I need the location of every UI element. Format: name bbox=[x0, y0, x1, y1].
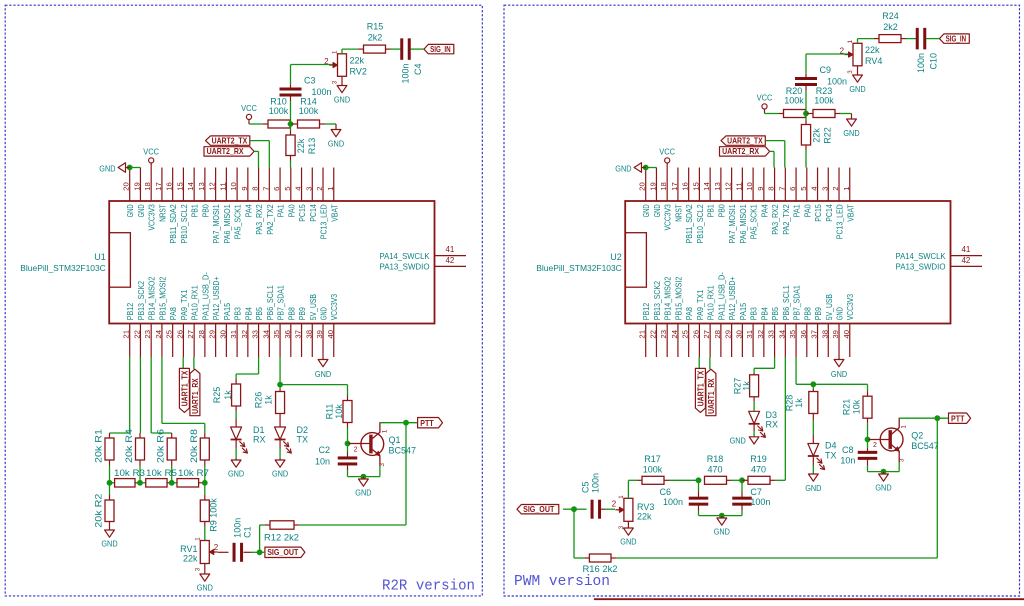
svg-text:22k: 22k bbox=[865, 45, 880, 55]
resistor R3 10k bbox=[114, 468, 145, 487]
svg-text:R21: R21 bbox=[842, 399, 852, 416]
wire R9 to RV1 bbox=[204, 527, 206, 541]
svg-text:PB13_SCK2: PB13_SCK2 bbox=[137, 281, 146, 321]
svg-text:100n: 100n bbox=[750, 497, 770, 507]
svg-text:UART2_TX: UART2_TX bbox=[212, 135, 248, 145]
pin 41 (PA14_SWCLK) of U1 bbox=[380, 245, 467, 261]
hierarchical label PTT bbox=[418, 418, 443, 428]
svg-text:PA7_MOSI1: PA7_MOSI1 bbox=[212, 204, 221, 244]
svg-text:1: 1 bbox=[194, 537, 201, 541]
pin 8 (PA3_RX2) of U1 bbox=[251, 168, 265, 235]
pin 33 (PB5) of U2 bbox=[767, 307, 781, 357]
svg-text:C3: C3 bbox=[304, 76, 316, 86]
svg-text:100k: 100k bbox=[643, 465, 663, 475]
svg-text:22k: 22k bbox=[350, 55, 365, 65]
pin 30 (PA15) of U2 bbox=[734, 302, 748, 357]
svg-text:25: 25 bbox=[165, 330, 174, 339]
pin 9 (PA4) of U1 bbox=[240, 168, 254, 218]
svg-text:22: 22 bbox=[132, 330, 141, 339]
svg-text:D4: D4 bbox=[825, 441, 837, 451]
svg-text:22k: 22k bbox=[812, 128, 822, 143]
svg-text:PB0: PB0 bbox=[717, 204, 726, 218]
svg-text:37: 37 bbox=[810, 330, 819, 339]
wire VCC to R10 bbox=[249, 123, 263, 125]
svg-text:10: 10 bbox=[229, 182, 238, 191]
pin 21 (PB12) of U2 bbox=[638, 302, 652, 357]
wire C1 to SIG_OUT node bbox=[244, 551, 260, 553]
power VCC feeding R10 bbox=[241, 103, 257, 124]
junction Q2 base node bbox=[865, 437, 871, 443]
svg-text:PC14: PC14 bbox=[309, 204, 318, 222]
svg-text:6: 6 bbox=[788, 187, 797, 191]
wire pin33 to R27 bbox=[754, 357, 774, 373]
svg-text:23: 23 bbox=[659, 330, 668, 339]
hierarchical label UART2_RX bbox=[204, 146, 254, 156]
wire R17 to node E bbox=[669, 479, 699, 481]
svg-text:PTT: PTT bbox=[420, 418, 433, 428]
svg-text:PA0: PA0 bbox=[803, 204, 812, 218]
pin 38 (5V_USB) of U1 bbox=[304, 294, 318, 357]
svg-text:27: 27 bbox=[702, 330, 711, 339]
svg-text:21: 21 bbox=[122, 330, 131, 339]
svg-text:26: 26 bbox=[691, 330, 700, 339]
wire R16 to SIG_OUT node bbox=[574, 509, 584, 558]
svg-text:29: 29 bbox=[724, 330, 733, 339]
pin 20 (GND) of U1 bbox=[122, 168, 136, 218]
svg-text:R11: R11 bbox=[324, 404, 334, 420]
wire R22 to pin 5 bbox=[805, 150, 807, 168]
pin 23 (PB14_MISO2) of U1 bbox=[143, 276, 157, 357]
ground right of R14 bbox=[328, 124, 344, 149]
capacitor C3 100n bbox=[280, 65, 332, 125]
svg-text:RX: RX bbox=[253, 435, 266, 445]
pin 11 (PA6_MISO1) of U2 bbox=[734, 168, 748, 244]
resistor R14 100k bbox=[291, 97, 325, 129]
wire pin20-pin19 GND tie bbox=[646, 167, 657, 169]
svg-text:UART1_TX: UART1_TX bbox=[179, 370, 189, 406]
svg-text:PA6_MISO1: PA6_MISO1 bbox=[223, 204, 232, 244]
svg-text:PB3: PB3 bbox=[750, 307, 759, 321]
svg-text:2k2: 2k2 bbox=[883, 22, 898, 32]
svg-text:30: 30 bbox=[218, 330, 227, 339]
svg-text:14: 14 bbox=[186, 182, 195, 191]
svg-text:38: 38 bbox=[304, 330, 313, 339]
svg-text:33: 33 bbox=[251, 330, 260, 339]
svg-text:PB7_SDA1: PB7_SDA1 bbox=[277, 285, 286, 320]
resistor R1 20k bbox=[94, 429, 115, 483]
svg-text:C1: C1 bbox=[243, 526, 253, 538]
pin 2 (PC13_LED) of U1 bbox=[315, 168, 329, 240]
wire TX node to R11 bbox=[280, 384, 347, 386]
hierarchical label UART1_RX bbox=[706, 369, 716, 416]
hierarchical label UART1_TX bbox=[695, 368, 705, 412]
pin 21 (PB12) of U1 bbox=[122, 302, 136, 357]
svg-text:TX: TX bbox=[297, 435, 309, 445]
junction C6/C7 ground bbox=[719, 513, 725, 519]
ground under C6/C7 bbox=[714, 516, 730, 537]
svg-text:19: 19 bbox=[132, 182, 141, 191]
svg-text:GND: GND bbox=[714, 527, 730, 537]
svg-text:PA10_RX1: PA10_RX1 bbox=[191, 285, 200, 320]
wire pin 26 to UART1_TX bbox=[182, 357, 184, 368]
svg-text:U2: U2 bbox=[610, 252, 622, 262]
svg-text:GND: GND bbox=[620, 537, 636, 547]
wire pin35 to TX node bbox=[279, 357, 281, 385]
svg-text:GND: GND bbox=[272, 469, 288, 479]
hierarchical label PTT (PWM) bbox=[949, 413, 971, 423]
wire Q1 emitter down bbox=[379, 456, 381, 477]
pin 7 (PA2_TX2) of U1 bbox=[261, 168, 275, 235]
svg-text:PA11_USB_D-: PA11_USB_D- bbox=[717, 272, 726, 320]
svg-text:25: 25 bbox=[681, 330, 690, 339]
transistor Q1 BC547 bbox=[354, 423, 416, 467]
svg-text:39: 39 bbox=[831, 330, 840, 339]
svg-text:1k: 1k bbox=[223, 390, 233, 400]
svg-text:16: 16 bbox=[681, 182, 690, 191]
pin 37 (PB9) of U1 bbox=[294, 307, 308, 357]
svg-text:PB12: PB12 bbox=[126, 302, 135, 320]
resistor R16 2k2 bbox=[583, 554, 618, 574]
svg-text:C7: C7 bbox=[750, 487, 762, 497]
svg-text:100k: 100k bbox=[814, 96, 834, 106]
svg-text:SIG_IN: SIG_IN bbox=[946, 33, 967, 43]
pin 17 (NRST) of U1 bbox=[154, 168, 168, 222]
svg-text:GND: GND bbox=[355, 488, 371, 498]
resistor R20 100k bbox=[779, 86, 807, 118]
svg-text:23: 23 bbox=[143, 330, 152, 339]
svg-text:3: 3 bbox=[304, 187, 313, 191]
wire UART2_RX to pin 8 bbox=[254, 151, 258, 167]
junction node D bbox=[202, 480, 208, 486]
svg-text:GND: GND bbox=[843, 128, 859, 138]
resistor R6 20k bbox=[156, 429, 177, 483]
svg-text:5V_USB: 5V_USB bbox=[309, 294, 318, 320]
svg-text:GND: GND bbox=[328, 139, 344, 149]
svg-text:U1: U1 bbox=[94, 252, 106, 262]
svg-text:PA4: PA4 bbox=[244, 204, 253, 218]
pin 34 (PB6_SCL1) of U1 bbox=[261, 285, 275, 357]
wire SIG_OUT node to C5 bbox=[574, 508, 587, 510]
svg-text:19: 19 bbox=[648, 182, 657, 191]
svg-text:20k R4: 20k R4 bbox=[124, 429, 134, 463]
resistor R4 20k bbox=[124, 429, 145, 483]
svg-text:R12 2k2: R12 2k2 bbox=[264, 532, 299, 542]
svg-text:24: 24 bbox=[670, 330, 679, 339]
capacitor C6 100n bbox=[659, 480, 708, 515]
svg-text:100n: 100n bbox=[827, 77, 847, 87]
pin 35 (PB7_SDA1) of U1 bbox=[272, 285, 286, 357]
text note R2R version bbox=[382, 579, 475, 595]
pin 39 (GND) of U1 bbox=[315, 307, 329, 357]
pin 1 (VBAT) of U1 bbox=[326, 168, 340, 222]
svg-text:10k R5: 10k R5 bbox=[146, 468, 177, 478]
svg-text:C5: C5 bbox=[580, 481, 590, 493]
wire ladder node A segment bbox=[110, 482, 115, 484]
svg-text:R25: R25 bbox=[212, 387, 222, 404]
svg-text:VCC3V3: VCC3V3 bbox=[664, 204, 673, 231]
ground GND flag at pin 20 bbox=[99, 163, 129, 174]
resistor R22 22k bbox=[801, 114, 832, 151]
pin 28 (PA11_USB_D-) of U1 bbox=[197, 272, 211, 357]
svg-text:PB10_SCL2: PB10_SCL2 bbox=[180, 204, 189, 244]
svg-text:C6: C6 bbox=[659, 487, 671, 497]
IC U2 BluePill_STM32F103C body bbox=[536, 201, 950, 324]
svg-text:30: 30 bbox=[734, 330, 743, 339]
junction TX node bbox=[277, 382, 283, 388]
pin 27 (PA10_RX1) of U1 bbox=[186, 285, 200, 357]
pin 20 (GND) of U2 bbox=[638, 168, 652, 218]
svg-text:PB3: PB3 bbox=[234, 307, 243, 321]
svg-text:GND: GND bbox=[99, 163, 115, 173]
svg-text:9: 9 bbox=[240, 187, 249, 191]
svg-text:GND: GND bbox=[836, 307, 845, 320]
svg-text:GND: GND bbox=[831, 369, 847, 379]
svg-text:PB5: PB5 bbox=[255, 307, 264, 321]
svg-text:RV3: RV3 bbox=[637, 502, 654, 512]
wire R12 to PTT net bbox=[299, 423, 406, 525]
wire R28 to D4 bbox=[812, 420, 814, 435]
svg-text:R28: R28 bbox=[784, 395, 794, 412]
wire R13 to pin 5 bbox=[290, 161, 292, 168]
svg-text:Q1: Q1 bbox=[389, 435, 401, 445]
capacitor C1 100n bbox=[233, 518, 253, 562]
svg-text:2: 2 bbox=[214, 543, 219, 552]
pin 3 (PC14) of U2 bbox=[820, 168, 834, 222]
svg-text:PA11_USB_D-: PA11_USB_D- bbox=[201, 272, 210, 320]
resistor R2 20k bbox=[94, 483, 115, 528]
hierarchical label SIG_IN bbox=[424, 44, 454, 54]
wire pin33 to R25 bbox=[236, 357, 258, 379]
svg-text:PA14_SWCLK: PA14_SWCLK bbox=[896, 252, 947, 261]
pin 40 (VCC3V3) of U2 bbox=[842, 294, 856, 357]
svg-text:1: 1 bbox=[381, 429, 388, 433]
svg-text:33: 33 bbox=[767, 330, 776, 339]
svg-text:UART2_RX: UART2_RX bbox=[722, 146, 759, 156]
resistor R24 2k2 bbox=[874, 11, 906, 43]
svg-text:PA1: PA1 bbox=[793, 204, 802, 218]
pin 41 (PA14_SWCLK) of U2 bbox=[896, 245, 983, 261]
ground under R2 bbox=[101, 527, 117, 549]
svg-text:13: 13 bbox=[197, 182, 206, 191]
svg-text:Q2: Q2 bbox=[911, 430, 923, 440]
svg-text:GND: GND bbox=[615, 163, 631, 173]
svg-text:PB0: PB0 bbox=[201, 204, 210, 218]
svg-text:PA15: PA15 bbox=[223, 302, 232, 320]
wire VCC to R20 bbox=[765, 113, 779, 115]
pin 35 (PB7_SDA1) of U2 bbox=[788, 285, 802, 357]
power VCC feeding R20 bbox=[757, 93, 773, 114]
svg-text:C10: C10 bbox=[928, 53, 938, 70]
svg-text:C4: C4 bbox=[413, 64, 423, 76]
ground under D3 bbox=[730, 436, 759, 446]
svg-text:R23: R23 bbox=[816, 86, 833, 96]
IC U1 BluePill_STM32F103C body bbox=[20, 201, 434, 324]
svg-text:11: 11 bbox=[734, 182, 743, 191]
svg-text:1k: 1k bbox=[264, 395, 274, 405]
svg-text:PB9: PB9 bbox=[298, 307, 307, 321]
resistor R11 10k bbox=[324, 385, 352, 428]
junction at pin20 top bbox=[643, 165, 649, 171]
hierarchical label UART2_RX bbox=[720, 146, 770, 156]
svg-text:PB11_SDA2: PB11_SDA2 bbox=[169, 204, 178, 244]
junction SIG_OUT node (PWM) bbox=[571, 506, 577, 512]
wire D1 to ground bbox=[235, 449, 237, 459]
pin 40 (VCC3V3) of U1 bbox=[326, 294, 340, 357]
junction ground rail (PWM) bbox=[881, 469, 887, 475]
resistor R19 470 bbox=[742, 454, 775, 484]
svg-text:GND: GND bbox=[320, 307, 329, 320]
wire UART2_TX to pin 7 bbox=[250, 141, 269, 168]
wire R27 to D3 bbox=[753, 402, 755, 411]
svg-text:470: 470 bbox=[751, 465, 766, 475]
svg-text:36: 36 bbox=[283, 330, 292, 339]
svg-text:41: 41 bbox=[445, 245, 454, 254]
resistor R27 1k bbox=[733, 373, 759, 402]
wire C6/C7 ground rail bbox=[699, 515, 743, 517]
junction node F bbox=[739, 477, 745, 483]
svg-text:100k: 100k bbox=[299, 106, 319, 116]
ground under D4 bbox=[805, 474, 821, 493]
svg-text:20: 20 bbox=[638, 182, 647, 191]
pin 42 (PA13_SWDIO) of U2 bbox=[896, 256, 983, 272]
svg-text:4: 4 bbox=[810, 187, 819, 191]
pin 24 (PB15_MOSI2) of U1 bbox=[154, 276, 168, 357]
resistor R7 10k bbox=[177, 468, 209, 487]
svg-text:R9 100k: R9 100k bbox=[208, 498, 218, 532]
svg-text:18: 18 bbox=[659, 182, 668, 191]
svg-text:VCC: VCC bbox=[757, 93, 773, 103]
svg-text:PA13_SWDIO: PA13_SWDIO bbox=[380, 263, 430, 272]
wire pin22 to R4 bbox=[139, 357, 141, 433]
svg-text:PA2_TX2: PA2_TX2 bbox=[782, 204, 791, 235]
svg-text:R14: R14 bbox=[300, 97, 317, 107]
pin 18 (VCC3V3) of U1 bbox=[143, 168, 157, 231]
svg-text:21: 21 bbox=[638, 330, 647, 339]
svg-text:SIG_OUT: SIG_OUT bbox=[523, 504, 554, 514]
svg-text:3: 3 bbox=[194, 567, 201, 571]
svg-text:GND: GND bbox=[642, 204, 651, 217]
svg-text:PC13_LED: PC13_LED bbox=[320, 204, 329, 239]
svg-text:R16 2k2: R16 2k2 bbox=[583, 564, 618, 574]
junction PTT node (PWM) bbox=[934, 415, 940, 421]
svg-text:10k: 10k bbox=[851, 399, 861, 414]
capacitor C9 100n bbox=[795, 54, 847, 114]
pin 23 (PB14_MISO2) of U2 bbox=[659, 276, 673, 357]
junction SIG_OUT node bbox=[257, 549, 263, 555]
pin 3 (PC14) of U1 bbox=[304, 168, 318, 222]
pin 14 (PB1) of U1 bbox=[186, 168, 200, 218]
ground under RV4 bbox=[849, 66, 865, 94]
potentiometer RV1 22k bbox=[180, 537, 219, 572]
svg-text:7: 7 bbox=[777, 187, 786, 191]
junction R10/R14 bbox=[288, 121, 294, 127]
pin 10 (PA5_SCK1) of U2 bbox=[745, 168, 759, 240]
svg-text:GND: GND bbox=[101, 539, 117, 549]
svg-text:GND: GND bbox=[653, 204, 662, 217]
svg-text:5: 5 bbox=[283, 187, 292, 191]
pin 34 (PB6_SCL1) of U2 bbox=[777, 285, 791, 357]
text note PWM version bbox=[514, 574, 610, 590]
svg-text:15: 15 bbox=[175, 182, 184, 191]
svg-text:BluePill_STM32F103C: BluePill_STM32F103C bbox=[536, 264, 622, 273]
svg-text:20k R6: 20k R6 bbox=[156, 429, 166, 463]
svg-text:TX: TX bbox=[825, 450, 837, 460]
pin 18 (VCC3V3) of U2 bbox=[659, 168, 673, 231]
svg-text:12: 12 bbox=[208, 182, 217, 191]
LED D2 TX bbox=[275, 419, 308, 454]
svg-text:PB9: PB9 bbox=[814, 307, 823, 321]
svg-text:PC13_LED: PC13_LED bbox=[836, 204, 845, 239]
pin 22 (PB13_SCK2) of U1 bbox=[132, 281, 146, 357]
junction R20/R23 bbox=[803, 111, 809, 117]
pin 9 (PA4) of U2 bbox=[756, 168, 770, 218]
pin 30 (PA15) of U1 bbox=[218, 302, 232, 357]
svg-text:GND: GND bbox=[228, 469, 244, 479]
svg-text:42: 42 bbox=[961, 256, 970, 265]
wire R21 to Q2 base node bbox=[867, 423, 869, 439]
ground right of R23 bbox=[843, 114, 859, 139]
svg-text:3: 3 bbox=[820, 187, 829, 191]
svg-text:RV4: RV4 bbox=[865, 56, 882, 66]
svg-text:36: 36 bbox=[799, 330, 808, 339]
svg-text:100n: 100n bbox=[400, 64, 410, 84]
pin 26 (PA9_TX1) of U2 bbox=[691, 289, 705, 357]
pin 5 (PA0) of U1 bbox=[283, 168, 297, 218]
svg-text:PB13_SCK2: PB13_SCK2 bbox=[653, 281, 662, 321]
svg-text:10k R7: 10k R7 bbox=[178, 468, 209, 478]
svg-text:9: 9 bbox=[756, 187, 765, 191]
capacitor C4 100n bbox=[400, 38, 423, 83]
resistor R26 1k bbox=[254, 385, 285, 419]
svg-text:20: 20 bbox=[122, 182, 131, 191]
wire R18 to node F bbox=[732, 479, 743, 481]
pin 39 (GND) of U2 bbox=[831, 307, 845, 357]
wire Q2 collector to PTT bbox=[899, 417, 948, 419]
wire base node to Q1 bbox=[349, 443, 371, 445]
svg-text:PA7_MOSI1: PA7_MOSI1 bbox=[728, 204, 737, 244]
svg-text:PB11_SDA2: PB11_SDA2 bbox=[685, 204, 694, 244]
junction Q1 base node bbox=[345, 441, 351, 447]
junction at pin20 top bbox=[127, 165, 133, 171]
pin 16 (PB11_SDA2) of U1 bbox=[165, 168, 179, 244]
svg-text:26: 26 bbox=[175, 330, 184, 339]
svg-text:29: 29 bbox=[208, 330, 217, 339]
junction TX node (PWM) bbox=[810, 381, 816, 387]
svg-text:PB14_MISO2: PB14_MISO2 bbox=[148, 276, 157, 320]
svg-text:VCC3V3: VCC3V3 bbox=[148, 204, 157, 231]
svg-text:10: 10 bbox=[745, 182, 754, 191]
power VCC at pin 18 bbox=[143, 147, 159, 168]
svg-text:PC14: PC14 bbox=[825, 204, 834, 222]
resistor R10 100k bbox=[263, 97, 291, 129]
potentiometer RV3 22k bbox=[612, 495, 655, 530]
wire PTT node to R16 bbox=[616, 418, 937, 558]
wire Q1 collector to PTT bbox=[380, 422, 418, 424]
svg-text:1: 1 bbox=[618, 495, 625, 499]
wire pot top to R24 bbox=[858, 39, 875, 44]
svg-text:R18: R18 bbox=[707, 454, 724, 464]
resistor R8 20k bbox=[189, 429, 210, 483]
wire R19 to pin 34 (PWM out) bbox=[775, 357, 785, 480]
hierarchical label UART1_TX bbox=[179, 368, 189, 412]
svg-text:SIG_IN: SIG_IN bbox=[430, 44, 451, 54]
wire RV1 wiper to C1 bbox=[218, 551, 229, 553]
pin 36 (PB8) of U2 bbox=[799, 307, 813, 357]
wire UART2_TX to pin 7 bbox=[765, 141, 785, 168]
svg-text:R2R version: R2R version bbox=[382, 579, 475, 595]
svg-text:34: 34 bbox=[777, 330, 786, 339]
wire wiper to C3 bbox=[291, 64, 333, 66]
